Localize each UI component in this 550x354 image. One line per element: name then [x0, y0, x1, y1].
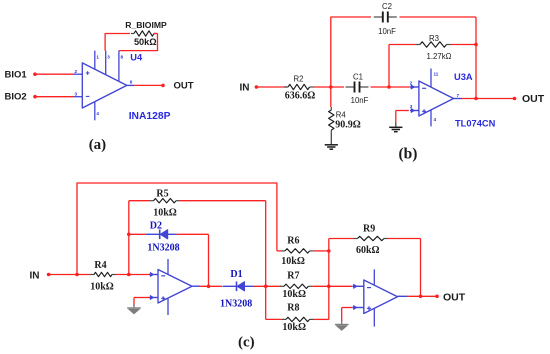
svg-text:10kΩ: 10kΩ	[281, 256, 305, 267]
svg-text:636.6Ω: 636.6Ω	[285, 91, 316, 102]
svg-text:10kΩ: 10kΩ	[153, 207, 177, 218]
svg-text:3: 3	[410, 104, 413, 109]
svg-text:3: 3	[75, 91, 78, 96]
svg-text:10kΩ: 10kΩ	[282, 289, 306, 300]
svg-text:60kΩ: 60kΩ	[356, 245, 380, 256]
svg-text:10kΩ: 10kΩ	[90, 281, 114, 292]
svg-text:R7: R7	[287, 270, 299, 281]
svg-text:R4: R4	[336, 111, 347, 120]
svg-text:11: 11	[434, 72, 439, 77]
svg-text:D1: D1	[230, 269, 242, 280]
svg-text:50kΩ: 50kΩ	[134, 37, 157, 47]
svg-text:4: 4	[96, 111, 99, 116]
svg-text:IN: IN	[30, 270, 40, 281]
svg-text:(c): (c)	[238, 335, 255, 351]
svg-text:10kΩ: 10kΩ	[282, 322, 306, 333]
svg-text:(b): (b)	[399, 146, 418, 163]
svg-text:U4: U4	[130, 52, 143, 62]
svg-text:TL074CN: TL074CN	[455, 118, 496, 128]
svg-text:C2: C2	[382, 2, 392, 11]
svg-text:C1: C1	[353, 73, 363, 82]
svg-text:R5: R5	[156, 189, 168, 200]
svg-text:10nF: 10nF	[351, 96, 369, 105]
svg-text:4: 4	[434, 117, 437, 122]
svg-text:BIO2: BIO2	[5, 91, 27, 102]
svg-text:90.9Ω: 90.9Ω	[335, 119, 361, 130]
svg-text:7: 7	[457, 93, 460, 98]
svg-text:IN: IN	[240, 82, 250, 93]
svg-text:R9: R9	[363, 224, 375, 235]
svg-text:R3: R3	[429, 34, 439, 43]
svg-text:10nF: 10nF	[378, 27, 396, 36]
svg-text:R8: R8	[287, 303, 299, 314]
svg-text:(a): (a)	[89, 137, 107, 153]
svg-text:OUT: OUT	[443, 292, 466, 304]
svg-text:1N3208: 1N3208	[220, 299, 252, 310]
svg-text:INA128P: INA128P	[129, 111, 171, 122]
svg-text:OUT: OUT	[174, 81, 194, 92]
svg-text:R2: R2	[294, 75, 304, 84]
svg-text:OUT: OUT	[522, 93, 545, 105]
svg-text:1.27kΩ: 1.27kΩ	[427, 52, 452, 61]
svg-text:2: 2	[75, 69, 78, 74]
svg-text:R_BIOIMP: R_BIOIMP	[125, 20, 167, 30]
svg-text:BIO1: BIO1	[5, 70, 28, 81]
svg-text:1N3208: 1N3208	[147, 243, 179, 254]
svg-text:6: 6	[130, 80, 133, 85]
svg-text:D2: D2	[150, 221, 162, 232]
svg-text:R6: R6	[287, 236, 299, 247]
svg-text:3: 3	[107, 55, 110, 60]
svg-text:2: 2	[410, 81, 413, 86]
svg-text:1: 1	[96, 55, 99, 60]
svg-text:8: 8	[121, 55, 124, 60]
svg-text:R4: R4	[94, 260, 106, 271]
svg-text:U3A: U3A	[454, 72, 473, 82]
